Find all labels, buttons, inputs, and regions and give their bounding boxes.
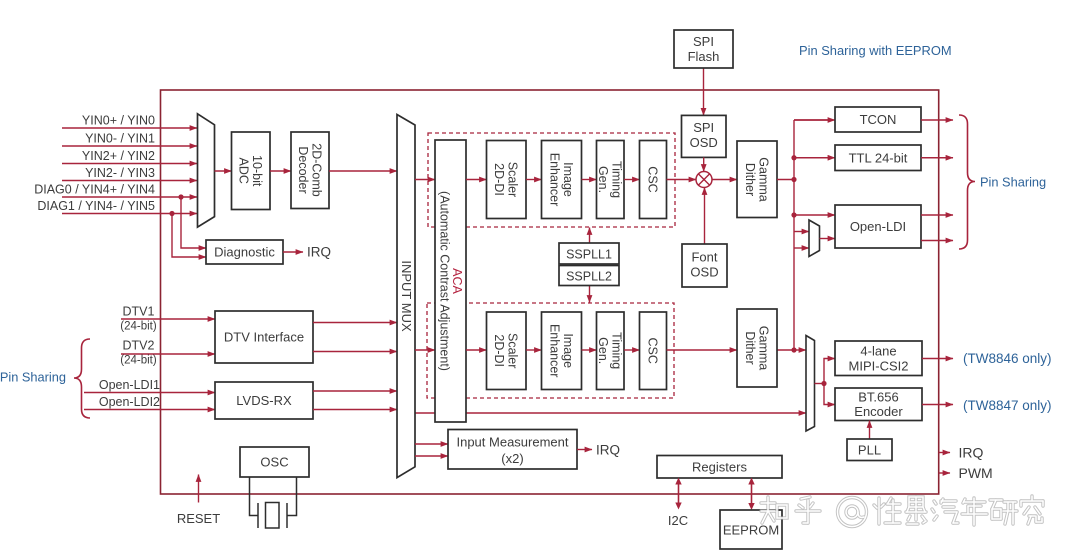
wire PLL to BT.656 xyxy=(869,421,871,440)
wire input YIN0+ / YIN0 xyxy=(62,127,197,129)
wire mux to ADC xyxy=(215,170,232,172)
svg-text:Pin Sharing: Pin Sharing xyxy=(980,175,1046,190)
wire Open-LDI2 input xyxy=(84,409,215,411)
block SSPLL2 xyxy=(559,266,619,286)
svg-text:Pin Sharing with EEPROM: Pin Sharing with EEPROM xyxy=(799,43,952,58)
node TTL junction xyxy=(791,155,796,160)
block SPI Flash xyxy=(674,30,733,68)
wire to output mux upper in1 xyxy=(794,231,809,233)
svg-text:OSD: OSD xyxy=(690,135,718,150)
svg-text:RESET: RESET xyxy=(177,511,220,526)
wire output mux lower out xyxy=(815,383,825,385)
dashed group upper pipeline xyxy=(428,133,675,227)
wire Image Enhancer to Timing Gen upper xyxy=(582,179,597,181)
wire DIAG1 to Diagnostic xyxy=(172,214,206,258)
wire IRQ output xyxy=(939,452,950,454)
block Scaler 2D-DI lower xyxy=(487,312,527,390)
svg-text:(x2): (x2) xyxy=(501,451,523,466)
block 2D-Comb Decoder xyxy=(291,132,329,209)
block DTV Interface xyxy=(215,311,313,363)
wire Timing Gen to CSC lower xyxy=(624,349,640,351)
wire SPI Flash to SPI OSD xyxy=(703,68,705,115)
svg-text:TCON: TCON xyxy=(860,112,897,127)
block Timing Gen lower xyxy=(597,312,625,390)
mixer OSD blend xyxy=(696,172,712,188)
wire Registers EEPROM bidirectional xyxy=(751,482,753,506)
svg-text:CSC: CSC xyxy=(646,166,660,192)
wire SSPLL2 to lower group xyxy=(589,286,591,303)
wire to output mux upper in2 xyxy=(794,247,809,249)
block Open-LDI xyxy=(835,205,921,248)
svg-text:Open-LDI2: Open-LDI2 xyxy=(99,395,160,409)
node gamma upper junction xyxy=(791,177,796,182)
chip outer border xyxy=(161,90,939,494)
svg-text:INPUT MUX: INPUT MUX xyxy=(399,260,414,332)
block OSC xyxy=(240,447,309,477)
block Registers xyxy=(657,456,782,479)
svg-text:(24-bit): (24-bit) xyxy=(120,321,157,333)
wire INPUT MUX to Input Measurement 1 xyxy=(415,443,448,445)
svg-text:Registers: Registers xyxy=(692,460,747,475)
node DIAG0 junction xyxy=(178,194,183,199)
node gamma lower junction xyxy=(791,347,796,352)
svg-text:Scaler2D-DI: Scaler2D-DI xyxy=(492,162,520,197)
svg-text:10-bitADC: 10-bitADC xyxy=(237,155,265,187)
wire Font OSD to mixer xyxy=(704,188,706,245)
dashed group lower pipeline xyxy=(427,303,674,398)
svg-text:(TW8846 only): (TW8846 only) xyxy=(963,351,1052,366)
wire ADC to 2D-Comb xyxy=(270,170,291,172)
svg-text:SSPLL2: SSPLL2 xyxy=(566,270,612,284)
wire Open-LDI output 2 xyxy=(921,240,953,242)
block 4-lane MIPI-CSI2 xyxy=(835,341,922,376)
wire mixer to Gamma Dither upper xyxy=(712,179,737,181)
wire ACA to Scaler lower xyxy=(466,349,487,351)
svg-text:SPI: SPI xyxy=(693,34,714,49)
mux INPUT MUX xyxy=(397,115,415,478)
svg-text:DTV Interface: DTV Interface xyxy=(224,330,304,345)
mux output lower xyxy=(806,336,815,432)
block Timing Gen upper xyxy=(597,141,625,219)
wire DTV1 input xyxy=(121,318,215,320)
svg-text:2D-CombDecoder: 2D-CombDecoder xyxy=(296,143,324,197)
block 10-bit ADC xyxy=(232,132,271,210)
svg-text:Font: Font xyxy=(691,250,717,265)
svg-text:Scaler2D-DI: Scaler2D-DI xyxy=(492,333,520,368)
svg-text:EEPROM: EEPROM xyxy=(723,523,779,538)
wire to BT.656 xyxy=(824,384,835,405)
mux analog input xyxy=(198,114,215,227)
svg-text:Open-LDI: Open-LDI xyxy=(850,219,906,234)
wire to Open-LDI direct xyxy=(794,214,835,216)
svg-text:YIN2+ / YIN2: YIN2+ / YIN2 xyxy=(82,149,155,163)
wire INPUT MUX to ACA lower xyxy=(415,349,435,351)
svg-text:Encoder: Encoder xyxy=(854,404,903,419)
block CSC upper xyxy=(640,141,667,219)
block Gamma Dither lower xyxy=(737,309,777,387)
wire 2D-Comb to INPUT MUX xyxy=(329,170,397,172)
wire TTL output xyxy=(921,157,953,159)
svg-text:DIAG0 / YIN4+ / YIN4: DIAG0 / YIN4+ / YIN4 xyxy=(34,183,155,197)
block Gamma Dither upper xyxy=(737,141,777,218)
svg-text:GammaDither: GammaDither xyxy=(743,157,771,202)
svg-text:Input Measurement: Input Measurement xyxy=(456,435,568,450)
brace pin sharing right xyxy=(959,115,975,249)
svg-text:TimingGen.: TimingGen. xyxy=(596,332,624,369)
wire ACA to Scaler upper xyxy=(466,179,487,181)
wire CSC to mixer xyxy=(667,179,697,181)
block Input Measurement x2 xyxy=(448,430,577,470)
svg-text:DIAG1 / YIN4- / YIN5: DIAG1 / YIN4- / YIN5 xyxy=(37,199,155,213)
mux output upper xyxy=(809,220,820,257)
block BT.656 Encoder xyxy=(835,388,922,421)
wire input YIN2- / YIN3 xyxy=(62,180,197,182)
watermark zhihu xyxy=(761,496,1043,527)
wire INPUT MUX to Input Measurement 2 xyxy=(415,455,448,457)
svg-text:Flash: Flash xyxy=(688,49,720,64)
wire DTV out 2 xyxy=(313,351,397,353)
wire to TTL 24-bit xyxy=(794,157,835,159)
wire LVDS out 1 xyxy=(313,390,397,392)
wire INPUT MUX to ACA upper xyxy=(415,179,435,181)
wire output mux to Open-LDI xyxy=(820,238,836,240)
wire Gamma Dither upper to junction xyxy=(777,179,794,181)
svg-text:DTV1: DTV1 xyxy=(123,305,155,319)
block LVDS-RX xyxy=(215,382,313,419)
wire CSC to Gamma Dither lower xyxy=(667,349,738,351)
wire PWM output xyxy=(939,472,950,474)
wire RESET input xyxy=(198,475,200,503)
wire MIPI output xyxy=(922,358,953,360)
wire Gamma lower to junction xyxy=(777,349,794,351)
wire Scaler to Image Enhancer upper xyxy=(526,179,542,181)
wire BT.656 output xyxy=(922,404,953,406)
wire Scaler to Image Enhancer lower xyxy=(526,349,542,351)
block Image Enhancer upper xyxy=(542,141,582,219)
wire to TCON arrow xyxy=(794,119,835,121)
block PLL xyxy=(847,439,892,461)
brace pin sharing left xyxy=(74,339,90,418)
svg-text:Open-LDI1: Open-LDI1 xyxy=(99,378,160,392)
wire to TCON xyxy=(794,119,830,121)
wire Image Enhancer to Timing Gen lower xyxy=(582,349,597,351)
block TTL 24-bit xyxy=(835,145,921,171)
block Font OSD xyxy=(682,244,727,287)
block TCON xyxy=(835,107,921,132)
wire DTV out 1 xyxy=(313,322,397,324)
block Image Enhancer lower xyxy=(542,312,582,390)
wire to MIPI-CSI2 xyxy=(824,359,835,384)
node mux out split xyxy=(821,381,826,386)
wire TCON output xyxy=(921,119,953,121)
svg-text:OSD: OSD xyxy=(690,265,718,280)
block Scaler 2D-DI upper xyxy=(487,141,527,219)
svg-text:OSC: OSC xyxy=(260,455,288,470)
wire input YIN2+ / YIN2 xyxy=(62,163,197,165)
svg-text:DTV2: DTV2 xyxy=(123,339,155,353)
svg-text:MIPI-CSI2: MIPI-CSI2 xyxy=(849,359,909,374)
svg-text:TTL 24-bit: TTL 24-bit xyxy=(849,151,908,166)
svg-text:I2C: I2C xyxy=(668,513,688,528)
svg-text:IRQ: IRQ xyxy=(596,443,620,458)
svg-text:(24-bit): (24-bit) xyxy=(120,355,157,367)
wire Input Measurement IRQ xyxy=(577,449,592,451)
svg-text:YIN0- / YIN1: YIN0- / YIN1 xyxy=(85,132,155,146)
wire input DIAG1 / YIN4- / YIN5 xyxy=(62,213,197,215)
wire output distribution vertical xyxy=(793,120,795,350)
wire INPUT MUX to output mux bypass xyxy=(415,412,806,414)
svg-text:CSC: CSC xyxy=(646,337,660,363)
block SSPLL1 xyxy=(559,243,619,264)
wire Open-LDI output 1 xyxy=(921,214,953,216)
wire input DIAG0 / YIN4+ / YIN4 xyxy=(62,196,197,198)
svg-text:Diagnostic: Diagnostic xyxy=(214,245,275,260)
svg-text:Pin Sharing: Pin Sharing xyxy=(0,370,66,385)
svg-text:SSPLL1: SSPLL1 xyxy=(566,248,612,262)
wire SSPLL1 to upper group xyxy=(589,228,591,244)
block ACA Automatic Contrast Adjustment xyxy=(435,140,466,422)
block SPI OSD xyxy=(682,115,727,157)
node DIAG1 junction xyxy=(169,211,174,216)
block CSC lower xyxy=(640,312,667,390)
svg-text:GammaDither: GammaDither xyxy=(743,326,771,371)
svg-text:PWM: PWM xyxy=(959,465,993,481)
wire LVDS out 2 xyxy=(313,409,397,411)
svg-text:PLL: PLL xyxy=(858,443,881,458)
svg-text:SPI: SPI xyxy=(693,120,714,135)
wire input YIN0- / YIN1 xyxy=(62,145,197,147)
svg-text:IRQ: IRQ xyxy=(307,245,331,260)
wire junction to output mux lower xyxy=(794,349,806,351)
wire Registers I2C bidirectional xyxy=(678,482,680,505)
crystal oscillator circuit xyxy=(250,477,259,516)
wire DTV2 input xyxy=(121,353,215,355)
wire DIAG0 to Diagnostic xyxy=(181,197,206,248)
wire SPI OSD to mixer xyxy=(703,157,705,171)
svg-text:(TW8847 only): (TW8847 only) xyxy=(963,398,1052,413)
svg-text:BT.656: BT.656 xyxy=(858,390,898,405)
svg-text:YIN0+ / YIN0: YIN0+ / YIN0 xyxy=(82,114,155,128)
wire Diagnostic IRQ xyxy=(283,251,303,253)
block EEPROM xyxy=(720,510,782,549)
wire Open-LDI1 input xyxy=(84,392,215,394)
block Diagnostic xyxy=(206,240,283,264)
node Open-LDI junction xyxy=(791,212,796,217)
svg-text:TimingGen.: TimingGen. xyxy=(596,161,624,198)
svg-text:LVDS-RX: LVDS-RX xyxy=(236,393,292,408)
wire Timing Gen to CSC upper xyxy=(624,179,640,181)
svg-text:4-lane: 4-lane xyxy=(860,344,896,359)
svg-text:YIN2- / YIN3: YIN2- / YIN3 xyxy=(85,166,155,180)
svg-text:IRQ: IRQ xyxy=(959,445,984,461)
